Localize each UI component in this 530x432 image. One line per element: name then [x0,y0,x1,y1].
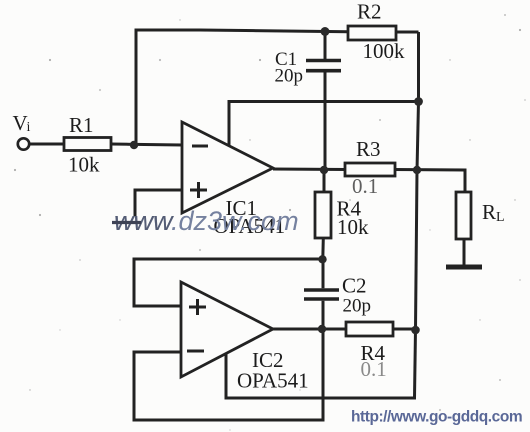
svg-text:R3: R3 [356,137,381,161]
svg-text:0.1: 0.1 [352,174,378,198]
svg-text:R2: R2 [357,0,382,24]
svg-text:http://www.go-gddq.com: http://www.go-gddq.com [351,409,522,426]
svg-text:20p: 20p [275,66,304,87]
svg-text:100k: 100k [363,39,406,63]
svg-text:OPA541: OPA541 [237,369,309,393]
svg-text:20p: 20p [343,296,372,317]
svg-text:L: L [496,210,505,225]
svg-text:R: R [482,200,496,224]
svg-text:0.1: 0.1 [361,357,387,381]
svg-text:10k: 10k [337,215,369,239]
svg-text:i: i [27,120,31,135]
svg-text:R1: R1 [69,113,94,137]
svg-text:C2: C2 [342,274,367,298]
svg-text:10k: 10k [68,153,100,177]
svg-text:V: V [13,111,28,135]
